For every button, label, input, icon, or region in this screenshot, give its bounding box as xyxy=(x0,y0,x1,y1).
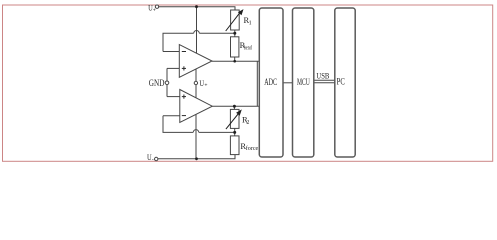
terminal U+ (middle) xyxy=(194,79,207,89)
wire: R2 to Rforce xyxy=(234,128,236,136)
wire: U2 feedback bottom horizontal (left part before hop) xyxy=(163,116,193,133)
wire: U1 non-inverting input xyxy=(167,67,179,69)
wire: U1 feedback top horizontal (left part before hop) xyxy=(163,33,194,51)
node: Rbend-output junction xyxy=(233,60,236,63)
svg-text:force: force xyxy=(246,145,259,152)
wire: U2 feedback bottom horizontal (right part to R junction) xyxy=(199,131,235,133)
terminal U+ (top left) xyxy=(148,4,159,14)
svg-text:MCU: MCU xyxy=(297,77,310,88)
wire: U- bottom rail xyxy=(158,155,235,159)
resistor Rbend xyxy=(231,37,239,57)
wire: U1 feedback top horizontal (right part to R junction) xyxy=(199,32,235,34)
svg-text:bend: bend xyxy=(244,45,252,51)
wire: ADC input joining bar xyxy=(256,61,258,106)
svg-text:+: + xyxy=(204,83,207,89)
wire: Rbend to output line xyxy=(234,57,236,61)
node: R1-Rbend junction xyxy=(233,32,236,35)
wire: GND vertical xyxy=(166,68,168,96)
border frame xyxy=(3,5,493,161)
wire: R1 to Rbend xyxy=(234,30,236,37)
wire: U2 negative supply drop xyxy=(195,114,197,159)
wire hop: feedback over supply line xyxy=(194,30,200,33)
block MCU xyxy=(293,8,314,157)
op-amp U1 xyxy=(179,45,212,78)
node: R2-output junction xyxy=(233,105,236,108)
block PC xyxy=(335,8,355,157)
svg-text:USB: USB xyxy=(316,71,329,80)
wire: MCU to PC xyxy=(314,82,335,84)
block ADC xyxy=(259,8,283,157)
svg-text:ADC: ADC xyxy=(264,77,277,88)
node: R2-Rforce junction xyxy=(233,131,236,134)
wire: R2 to output line xyxy=(233,106,235,109)
wire: U2 output xyxy=(212,105,259,107)
svg-text:-: - xyxy=(152,157,154,163)
svg-text:1: 1 xyxy=(249,20,252,26)
wire hop: feedback over negative supply line xyxy=(193,130,199,133)
terminal GND xyxy=(149,78,169,88)
wire: U2 inverting input xyxy=(163,115,180,117)
wire: positive supply drop to op-amp U1 xyxy=(196,7,198,53)
wire: ADC to MCU xyxy=(283,82,293,84)
resistor R1 (variable) xyxy=(226,9,244,31)
op-amp U2 xyxy=(180,90,213,123)
svg-text:PC: PC xyxy=(337,77,345,88)
wire: U+ top rail xyxy=(159,7,235,10)
svg-text:+: + xyxy=(153,8,156,13)
wire: mid terminal to U2 positive supply xyxy=(195,85,197,98)
wire: U2 non-inverting input xyxy=(167,96,180,98)
wire: U1 output xyxy=(212,60,259,62)
wire: U1 inverting input xyxy=(163,51,179,53)
wire: U1 negative supply to mid terminal xyxy=(195,69,197,81)
svg-text:2: 2 xyxy=(246,120,249,126)
junction dots xyxy=(195,5,236,160)
terminal U- (bottom left) xyxy=(147,153,158,163)
resistor Rforce xyxy=(230,136,239,155)
svg-text:GND: GND xyxy=(149,78,165,88)
resistor R2 (variable) xyxy=(226,109,242,129)
node: top rail / supply xyxy=(195,5,198,8)
wire: USB underline xyxy=(314,79,335,81)
node: bottom rail / supply xyxy=(195,157,198,160)
